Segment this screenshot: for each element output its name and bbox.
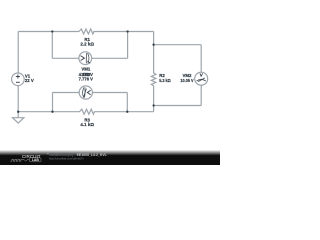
svg-text:LAB: LAB [32, 158, 40, 162]
wire left vertical bottom [17, 86, 19, 118]
wire VM1 branch right horizontal [92, 57, 128, 59]
node right vertical / VM2 bottom [152, 104, 154, 106]
node bottom rail / VM3 right [126, 111, 128, 113]
wire VM2 top vertical [200, 45, 202, 72]
resistor R2 [151, 73, 156, 86]
VM2 needle [198, 78, 205, 82]
svg-text:2.2 kΩ: 2.2 kΩ [80, 42, 94, 47]
node top rail / VM1 left [51, 30, 53, 32]
wire VM1 branch right vertical [127, 32, 129, 59]
VM1 needle [85, 53, 88, 64]
wire VM2 top horizontal [154, 44, 202, 46]
svg-text:22 V: 22 V [25, 78, 34, 83]
svg-text:VM1: VM1 [81, 67, 91, 72]
svg-text:http://circuitlab.com/c8mb67e: http://circuitlab.com/c8mb67e [49, 156, 84, 160]
wire VM3 branch right vertical [126, 93, 128, 112]
logo LAB box [30, 158, 41, 162]
resistor R1 [79, 29, 94, 34]
svg-text:7.776 V: 7.776 V [79, 77, 93, 82]
wire VM2 bottom vertical [200, 85, 202, 105]
voltmeter VM1 circle [79, 52, 92, 65]
node top rail / VM1 right [126, 30, 128, 32]
wire VM3 branch right horizontal [92, 92, 127, 94]
VM1 gauge arc [88, 53, 89, 63]
logo sine tail [22, 159, 29, 161]
VM3 rotated V glyph [87, 90, 90, 94]
wire right vertical top [153, 32, 155, 74]
footer user icon [47, 153, 48, 154]
wire bottom rail left [18, 111, 79, 113]
wire VM3 branch left vertical [52, 93, 54, 112]
wire VM1 branch left vertical [51, 32, 53, 59]
footer black bar [0, 155, 220, 165]
wire VM3 branch left horizontal [53, 92, 80, 94]
footer gradient edge [0, 150, 220, 156]
wire bottom rail right [94, 111, 154, 113]
wire VM2 bottom horizontal [154, 105, 202, 107]
wire right vertical bottom [153, 86, 155, 112]
VM3 gauge arc [83, 88, 84, 98]
node bottom rail / VM3 left [51, 111, 53, 113]
svg-text:4.1 kΩ: 4.1 kΩ [80, 122, 94, 127]
VM1 rotated V glyph [81, 56, 85, 61]
voltmeter VM2 circle [195, 72, 208, 85]
node bottom rail / ground [17, 111, 19, 113]
voltage source V1 [12, 73, 25, 86]
ground [13, 118, 24, 123]
VM1 needle tip [87, 61, 90, 63]
resistor R3 [80, 109, 95, 114]
V1 plus sign [16, 75, 20, 79]
VM2 gauge ticks [198, 79, 204, 81]
V1 minus sign [16, 81, 20, 83]
VM3 needle tip [84, 89, 87, 97]
wire left vertical top [17, 32, 19, 74]
wire VM1 branch left horizontal [52, 57, 79, 59]
logo waveform [10, 159, 22, 161]
svg-text:5.3 kΩ: 5.3 kΩ [159, 78, 171, 83]
svg-text:10.05 V: 10.05 V [180, 78, 193, 83]
voltmeter VM3 circle [79, 86, 92, 99]
wire top rail left [18, 31, 79, 33]
VM3 needle [84, 87, 86, 98]
VM2 gauge arc [197, 79, 206, 81]
node right vertical / VM2 top [152, 44, 154, 46]
wire top rail right [93, 31, 153, 33]
